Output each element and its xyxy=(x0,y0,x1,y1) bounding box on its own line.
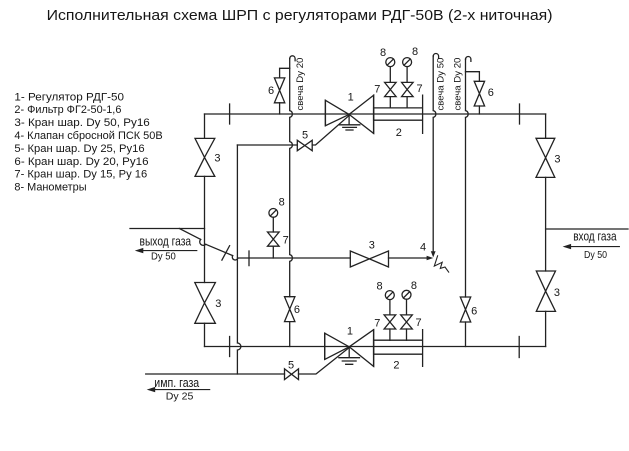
tick on diagonal xyxy=(222,246,230,260)
regulator U1 top: flanges, bowtie, membrane ground xyxy=(325,95,373,133)
svg-text:8: 8 xyxy=(380,47,386,59)
gauge 8 bottom-right xyxy=(402,290,411,299)
gauge stubs on top filter xyxy=(390,67,407,108)
pipe: right header vertical xyxy=(545,114,547,347)
svg-text:свеча Dу 20: свеча Dу 20 xyxy=(295,58,306,111)
svg-text:выход газа: выход газа xyxy=(140,233,192,248)
filter F1 top: body and flange xyxy=(374,95,423,133)
svg-text:3: 3 xyxy=(214,153,220,165)
valve 3 right-bottom xyxy=(536,271,555,311)
pipe: bottom header line xyxy=(205,346,546,348)
valve 6 bottom-right on riser xyxy=(460,297,470,322)
valve 7 top-right xyxy=(402,82,414,96)
valve 6 top-left xyxy=(274,78,284,103)
gauge 8 top-left xyxy=(386,58,395,67)
svg-text:4: 4 xyxy=(420,242,426,254)
valve 3 right-top xyxy=(536,138,555,177)
svg-text:6: 6 xyxy=(268,85,274,97)
svg-text:8: 8 xyxy=(412,46,418,58)
svg-text:6: 6 xyxy=(488,87,494,99)
vent riser Dу50 with top curl and hop xyxy=(433,53,438,58)
svg-text:вход газа: вход газа xyxy=(573,229,617,244)
svg-text:2: 2 xyxy=(396,127,402,139)
svg-text:6- Кран шар. Dу 20, Ру16: 6- Кран шар. Dу 20, Ру16 xyxy=(14,156,148,168)
junction loop at mid-line node xyxy=(232,256,237,260)
filter F2 bottom: body and flange xyxy=(374,330,423,367)
svg-text:3- Кран шар. Dу 50, Ру16: 3- Кран шар. Dу 50, Ру16 xyxy=(14,117,149,129)
valve 6 top-right xyxy=(474,81,484,106)
svg-text:Dу 50: Dу 50 xyxy=(584,250,607,261)
svg-text:7: 7 xyxy=(417,83,423,95)
pipe: left header vertical xyxy=(204,114,206,347)
valve 7 mid xyxy=(268,232,280,246)
svg-text:3: 3 xyxy=(215,298,221,310)
svg-text:7: 7 xyxy=(283,235,289,247)
gauge stubs on bottom filter xyxy=(390,299,407,340)
inlet flow label вход газа xyxy=(573,229,617,262)
svg-text:8: 8 xyxy=(279,197,285,209)
valve 7 bottom-left xyxy=(384,315,396,329)
flange tick top line right xyxy=(519,104,521,124)
gauge 8 mid xyxy=(269,209,278,218)
flange tick bottom line right xyxy=(518,337,520,358)
svg-text:Dу 50: Dу 50 xyxy=(151,251,176,262)
pipe: outlet tap diagonal with hop over left header xyxy=(179,229,232,256)
valve 3 mid horizontal xyxy=(350,251,388,267)
svg-text:Dу 25: Dу 25 xyxy=(166,392,194,403)
svg-text:2- Фильтр ФГ2-50-1,6: 2- Фильтр ФГ2-50-1,6 xyxy=(14,104,121,116)
svg-text:4- Клапан сбросной ПСК 50В: 4- Клапан сбросной ПСК 50В xyxy=(14,130,162,142)
svg-text:7- Кран шар. Dу 15, Ру 16: 7- Кран шар. Dу 15, Ру 16 xyxy=(14,169,147,181)
svg-text:8: 8 xyxy=(411,280,417,292)
pipe: top header line xyxy=(205,113,546,115)
regulator U2 bottom: flanges, bowtie, membrane ground xyxy=(325,330,374,367)
valve 6 stub top-left with jog xyxy=(280,68,290,114)
hop arc of diagonal at left header xyxy=(200,239,206,245)
svg-text:1: 1 xyxy=(347,325,353,337)
valve 5 top xyxy=(297,140,312,150)
svg-text:3: 3 xyxy=(554,154,560,166)
svg-text:2: 2 xyxy=(393,360,399,372)
svg-text:8- Манометры: 8- Манометры xyxy=(14,182,86,194)
svg-text:6: 6 xyxy=(471,306,477,318)
svg-text:свеча Dу 20: свеча Dу 20 xyxy=(453,58,464,111)
pipe: impulse vertical with hop over bottom line xyxy=(237,145,241,374)
vent riser Dу20 left with top curl and hops xyxy=(290,56,295,61)
valve 6 stub top-right with jog xyxy=(466,72,480,114)
svg-text:Исполнительная схема ШРП с рег: Исполнительная схема ШРП с регуляторами … xyxy=(47,8,553,24)
valve 7 top-left xyxy=(385,82,397,96)
valve 5 bottom xyxy=(285,369,299,380)
valve 3 left-top xyxy=(195,138,215,176)
svg-text:свеча Dу 50: свеча Dу 50 xyxy=(436,58,447,111)
gauge 8 top-right xyxy=(403,58,412,67)
svg-text:5: 5 xyxy=(302,130,308,142)
vent riser Dу20 right with top curl and hop xyxy=(466,57,471,62)
pipe: impulse line to top regulator xyxy=(237,116,349,146)
valve 6 bottom-left on riser xyxy=(285,297,295,322)
valve 7 bottom-right xyxy=(401,315,413,329)
pipe: outlet line xyxy=(130,228,205,230)
svg-text:7: 7 xyxy=(415,317,421,329)
mid gauge stub xyxy=(272,217,274,258)
svg-text:5: 5 xyxy=(288,359,294,371)
flange tick top line left xyxy=(229,104,231,124)
outlet flow label выход газа xyxy=(140,233,192,262)
svg-text:1- Регулятор РДГ-50: 1- Регулятор РДГ-50 xyxy=(14,91,124,103)
svg-text:7: 7 xyxy=(374,84,380,96)
valve 3 left-bottom xyxy=(195,283,216,324)
pipe: inlet line xyxy=(546,228,628,230)
pipe: mid relief line xyxy=(238,257,429,259)
svg-text:6: 6 xyxy=(294,304,300,316)
svg-text:имп. газа: имп. газа xyxy=(154,375,200,390)
flange tick bottom line left xyxy=(229,337,231,357)
svg-text:3: 3 xyxy=(369,240,375,252)
relief valve PSK 4: arrows and spring zigzag xyxy=(427,256,434,261)
svg-text:1: 1 xyxy=(348,91,354,103)
svg-text:8: 8 xyxy=(376,281,382,293)
pipe: bottom impulse line xyxy=(146,348,350,375)
impulse flow label имп. газа xyxy=(154,375,200,403)
gauge 8 bottom-left xyxy=(385,291,394,300)
svg-text:7: 7 xyxy=(374,318,380,330)
svg-text:3: 3 xyxy=(554,287,560,299)
svg-text:5- Кран шар. Dу 25, Ру16: 5- Кран шар. Dу 25, Ру16 xyxy=(14,143,144,155)
legend xyxy=(14,91,162,193)
flange tick mid line xyxy=(248,251,250,266)
